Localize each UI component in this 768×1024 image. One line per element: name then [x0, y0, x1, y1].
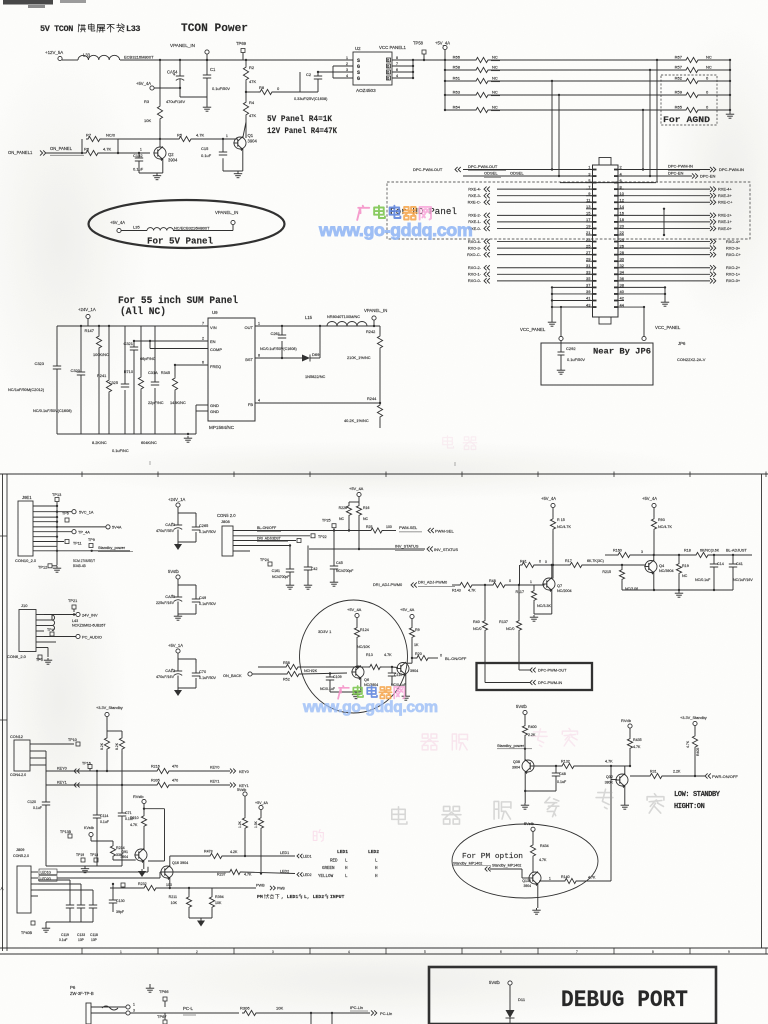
svg-text:R405: R405 [696, 748, 700, 756]
svg-text:28: 28 [620, 250, 625, 255]
resistor R18 [694, 552, 710, 557]
svg-text:NC/0.1uF/50V(C1608): NC/0.1uF/50V(C1608) [260, 347, 297, 351]
wire J9E1 row9 TP9 [33, 545, 57, 547]
svg-text:For 55 inch SUM Panel: For 55 inch SUM Panel [118, 295, 238, 306]
ground J10 [47, 658, 49, 660]
svg-text:LED2: LED2 [303, 873, 312, 877]
wire RXO-2+ [618, 267, 710, 269]
svg-text:41: 41 [586, 296, 591, 301]
svg-text:R160: R160 [613, 549, 622, 553]
svg-text:100: 100 [386, 525, 392, 529]
vertical from R132 row to PM [610, 766, 612, 881]
diode D69 [302, 355, 310, 362]
svg-text:8.2K: 8.2K [100, 742, 104, 750]
resistor R52 [285, 671, 301, 676]
resistor R147 [98, 325, 100, 327]
resistor R394 [211, 888, 213, 895]
transistor Q5 [397, 663, 409, 675]
resistor R232 [142, 885, 158, 890]
svg-text:J808: J808 [221, 519, 230, 524]
svg-text:Standby_MP1402: Standby_MP1402 [453, 862, 482, 866]
svg-text:1K: 1K [414, 643, 419, 647]
svg-text:5V TCON: 5V TCON [40, 24, 73, 34]
sheet left border [2, 474, 4, 951]
svg-text:15: 15 [586, 211, 591, 216]
Q6 emitter ground [360, 678, 362, 693]
JP6 pin 9/10 [586, 195, 593, 197]
svg-text:COMP: COMP [210, 347, 222, 352]
wire J9E1 row7 [33, 536, 57, 538]
box DPC-PWM [477, 663, 593, 690]
svg-text:5: 5 [424, 950, 426, 954]
svg-text:C31A: C31A [148, 370, 158, 375]
svg-text:TP9: TP9 [88, 538, 95, 542]
svg-text:33: 33 [586, 270, 591, 275]
svg-text:8: 8 [258, 354, 260, 358]
svg-text:0.1uF/NC: 0.1uF/NC [112, 448, 129, 453]
svg-text:1: 1 [530, 580, 532, 584]
wire ON_PANEL [46, 152, 84, 154]
svg-text:R8: R8 [259, 85, 265, 90]
resistor R25 [369, 528, 384, 533]
svg-text:210K_1%/NC: 210K_1%/NC [347, 355, 371, 360]
wire Q5 collector [411, 658, 413, 663]
box Near By JP6 [541, 343, 653, 385]
svg-text:NC/0.1uF: NC/0.1uF [695, 578, 711, 582]
svg-text:R306: R306 [240, 1006, 250, 1011]
svg-text:GND: GND [210, 403, 219, 408]
svg-text:4.2K: 4.2K [230, 850, 238, 854]
svg-text:ODSEL: ODSEL [510, 171, 524, 176]
svg-text:Q132: Q132 [522, 879, 531, 883]
svg-text:1.2K: 1.2K [238, 820, 242, 828]
JP6 pin 43/44 [586, 306, 593, 308]
svg-text:37: 37 [586, 283, 591, 288]
svg-text:4.7K: 4.7K [196, 133, 205, 138]
svg-text:R41: R41 [520, 560, 527, 564]
resistor R160 [616, 552, 632, 557]
connector JP6 body [593, 165, 619, 317]
svg-text:+5V_4A: +5V_4A [136, 81, 151, 86]
svg-text:7: 7 [576, 950, 578, 954]
svg-text:Q7: Q7 [557, 583, 562, 588]
resistor R132 [560, 763, 576, 768]
svg-text:5CM 2706/5E/7: 5CM 2706/5E/7 [73, 559, 95, 563]
ground C161 [289, 583, 291, 585]
svg-text:3904: 3904 [168, 158, 178, 163]
svg-text:2.2K: 2.2K [673, 770, 681, 774]
chevron KEY1 out [230, 783, 236, 788]
svg-text:+5V_4A: +5V_4A [349, 486, 364, 491]
svg-text:R4: R4 [249, 100, 255, 105]
svg-text:RXO-3-: RXO-3- [468, 245, 482, 250]
svg-text:NC: NC [706, 55, 712, 60]
svg-text:R63: R63 [453, 90, 461, 95]
svg-text:VPANEL_IN: VPANEL_IN [170, 43, 195, 48]
capacitor C110 [391, 667, 393, 672]
svg-text:TP66: TP66 [159, 989, 169, 994]
svg-text:RED: RED [330, 860, 338, 864]
wire row R63 to R59 [490, 94, 684, 96]
svg-text:INPUT: INPUT [330, 894, 345, 900]
bottom wire keypad [46, 865, 122, 867]
svg-text:TP58: TP58 [413, 41, 424, 46]
svg-text:RXE-0+: RXE-0+ [718, 226, 732, 231]
resistor R305 [155, 782, 171, 787]
svg-text:39: 39 [586, 289, 591, 294]
svg-text:C45: C45 [336, 561, 343, 565]
svg-text:47K: 47K [249, 79, 256, 84]
wire row R66 to R67 [490, 59, 684, 61]
JP6 pin 35/36 [586, 280, 593, 282]
svg-text:0.1uF: 0.1uF [100, 820, 109, 824]
svg-text:LED2: LED2 [280, 870, 289, 874]
JP6 pin 11/12 [586, 201, 593, 203]
wire DPC-PWM-OUT row [463, 169, 593, 171]
svg-text:3904: 3904 [523, 884, 531, 888]
resistor R434 [530, 843, 535, 858]
svg-text:LED1: LED1 [280, 851, 289, 855]
ground right block [678, 591, 680, 593]
svg-text:L43: L43 [72, 619, 78, 623]
svg-text:, LED1: , LED1 [281, 894, 298, 900]
wire 5VC_1A [33, 511, 72, 513]
svg-text:For 5V Panel: For 5V Panel [147, 237, 214, 247]
svg-text:143K/NC: 143K/NC [170, 400, 186, 405]
svg-text:R17: R17 [565, 559, 572, 563]
svg-text:R226: R226 [339, 506, 347, 510]
svg-text:RXE-C+: RXE-C+ [718, 200, 733, 205]
svg-text:EN: EN [210, 339, 216, 344]
svg-text:10K: 10K [215, 901, 222, 905]
svg-text:0.1uF: 0.1uF [557, 780, 567, 784]
svg-text:47K: 47K [249, 113, 256, 118]
wire collector row y555 [605, 554, 616, 556]
svg-text:KEY0: KEY0 [210, 766, 219, 770]
svg-text:NC/0: NC/0 [106, 133, 116, 138]
wire row R61 to R62 [490, 80, 684, 82]
svg-text:C109: C109 [333, 675, 342, 679]
svg-text:3: 3 [133, 1009, 135, 1013]
testpoint TP8 [33, 541, 64, 543]
svg-text:C130: C130 [116, 899, 125, 903]
svg-text:RXE-4-: RXE-4- [468, 186, 481, 191]
svg-text:D69: D69 [312, 352, 320, 357]
svg-text:4.7K: 4.7K [605, 760, 613, 764]
svg-text:KEY1: KEY1 [210, 780, 219, 784]
svg-text:NCH/2K: NCH/2K [304, 669, 318, 673]
svg-text:CA30: CA30 [165, 594, 176, 599]
capacitor C114 [96, 771, 98, 814]
svg-text:RXO-4+: RXO-4+ [726, 239, 741, 244]
svg-text:ON_PANEL1: ON_PANEL1 [8, 150, 33, 155]
svg-text:R210: R210 [130, 816, 139, 820]
capacitor C323 [57, 325, 88, 327]
wire RXE-3- [497, 195, 593, 197]
svg-text:BL-ADJUST: BL-ADJUST [726, 549, 747, 553]
svg-text:NCKZSM02-6UB26T: NCKZSM02-6UB26T [72, 624, 106, 628]
svg-text:35: 35 [586, 276, 591, 281]
resistor R117 [533, 585, 535, 589]
svg-text:0: 0 [509, 579, 511, 583]
svg-text:C325: C325 [109, 380, 118, 385]
svg-text:TP22: TP22 [318, 535, 327, 539]
svg-text:TP11: TP11 [73, 542, 82, 546]
JP6 pin 41/42 [586, 300, 593, 302]
resistor R17 [568, 562, 584, 567]
svg-text:R5: R5 [177, 133, 183, 138]
vertical OUT to BST [319, 326, 321, 358]
svg-text:30: 30 [620, 256, 625, 261]
svg-text:10P: 10P [91, 938, 98, 942]
svg-text:LED1: LED1 [337, 849, 348, 855]
svg-text:C110: C110 [394, 673, 402, 677]
svg-text:3904: 3904 [512, 766, 520, 770]
svg-text:L33: L33 [126, 24, 140, 34]
wire left row1 [258, 666, 284, 668]
svg-text:+12V_5A: +12V_5A [45, 50, 63, 55]
wire COMP pin [149, 341, 151, 349]
top sheet remnant ticks [149, 461, 151, 465]
svg-text:TP12: TP12 [38, 565, 47, 570]
svg-text:3D3V 1: 3D3V 1 [318, 629, 332, 634]
svg-text:R211: R211 [169, 895, 177, 899]
svg-text:6: 6 [202, 361, 204, 365]
JP6 pin 25/26 [586, 247, 593, 249]
capacitor C49 [195, 597, 197, 599]
wire R17 row [553, 564, 568, 566]
testpoint TP40B [31, 921, 35, 925]
wire RXE-1- [497, 221, 593, 223]
svg-text:3: 3 [641, 550, 643, 554]
svg-text:9: 9 [728, 950, 730, 954]
capacitor C109 [329, 672, 331, 674]
resistor R210 [143, 809, 145, 814]
svg-text:R3: R3 [144, 99, 150, 104]
svg-text:43: 43 [586, 302, 591, 307]
svg-text:0.1uF/50V: 0.1uF/50V [199, 676, 217, 680]
svg-text:RVdb: RVdb [621, 718, 632, 723]
resistor R435 [627, 737, 632, 750]
svg-text:Q6: Q6 [364, 678, 369, 682]
transistor Q38 [522, 760, 534, 772]
svg-text:0: 0 [440, 654, 442, 658]
svg-text:NR8040T100M/NC: NR8040T100M/NC [327, 314, 360, 319]
svg-text:L35: L35 [133, 225, 140, 230]
svg-text:NC/3904: NC/3904 [659, 569, 674, 573]
svg-text:2: 2 [196, 950, 198, 954]
svg-text:DPC-PWM-IN: DPC-PWM-IN [538, 680, 562, 685]
svg-text:1: 1 [133, 1003, 135, 1007]
svg-text:C118: C118 [90, 933, 98, 937]
JP6 bottom right bus [664, 287, 666, 300]
svg-text:4.7K: 4.7K [130, 823, 138, 827]
wire LED1 row [170, 855, 208, 857]
svg-text:4: 4 [258, 399, 260, 403]
capacitor CA30 [177, 585, 179, 597]
svg-text:R57: R57 [675, 65, 683, 70]
svg-text:NC/3.3K: NC/3.3K [537, 604, 551, 608]
wire PC_AUDIO [44, 636, 76, 638]
svg-text:+5V_4A: +5V_4A [642, 496, 657, 501]
JP6 pin 15/16 [586, 214, 593, 216]
wire standby split [107, 730, 122, 732]
svg-text:NC/0.1uF/50V(C1608): NC/0.1uF/50V(C1608) [33, 408, 72, 413]
resistor R216 [155, 768, 171, 773]
svg-text:21: 21 [586, 230, 591, 235]
resistor R66 [444, 59, 446, 61]
svg-text:0.1uF: 0.1uF [133, 167, 144, 172]
Q91 emitter ground [143, 861, 145, 870]
svg-text:44: 44 [620, 302, 625, 307]
svg-text:C71: C71 [125, 811, 132, 815]
svg-text:C42: C42 [311, 567, 317, 571]
testpoint TP10 [40, 743, 74, 745]
svg-text:R434: R434 [540, 844, 549, 848]
svg-text:J809: J809 [16, 847, 24, 852]
svg-text:R65: R65 [675, 105, 683, 110]
capacitor CA12 [177, 659, 179, 671]
svg-text:CA13: CA13 [165, 522, 175, 527]
svg-text:31: 31 [586, 263, 591, 268]
svg-text:19: 19 [586, 224, 591, 229]
ground 5Vstb [177, 614, 179, 616]
svg-text:0.1uF/50V: 0.1uF/50V [199, 602, 217, 606]
resistor R48 [491, 582, 507, 587]
svg-text:5Vstb: 5Vstb [489, 980, 500, 985]
faint watermark CJK row [392, 807, 407, 824]
capacitor C162 [307, 546, 309, 566]
svg-text:TP19: TP19 [76, 853, 84, 857]
vertical resistors RG24 RG23 [244, 796, 246, 816]
capacitor C1 [206, 59, 208, 61]
resistor R103 [104, 736, 109, 751]
wire RXO-3+ [618, 247, 710, 249]
transistor Q132 [529, 872, 541, 884]
svg-text:Standby_MP1402: Standby_MP1402 [492, 864, 521, 868]
svg-text:R93: R93 [658, 518, 665, 522]
svg-text:R232: R232 [138, 882, 147, 886]
svg-text:Near By JP6: Near By JP6 [593, 348, 651, 357]
Q5 emitter ground [405, 674, 407, 694]
P6 pins [91, 1006, 126, 1008]
wire FB [255, 402, 380, 404]
svg-text:R19: R19 [682, 564, 689, 568]
svg-text:R16: R16 [363, 506, 369, 510]
resistor R306 [242, 1010, 258, 1015]
testpoint TP5 ground [44, 647, 48, 649]
svg-text:PWB: PWB [256, 884, 265, 888]
capacitor C320 [80, 325, 82, 327]
svg-text:DPC-EN: DPC-EN [668, 170, 683, 175]
svg-text:Standby_power: Standby_power [98, 545, 126, 550]
wire RXE-0+ [618, 227, 710, 229]
svg-text:R62: R62 [675, 76, 683, 81]
svg-text:NC/0.1uF: NC/0.1uF [320, 687, 335, 691]
Q7 emitter [551, 590, 553, 615]
Q38 emitter [524, 772, 526, 804]
wire DRI_ADJ 3DST [233, 540, 296, 542]
wire RXO-0- [497, 280, 593, 282]
wire RXE-C+ [618, 201, 710, 203]
svg-text:RXE-4+: RXE-4+ [718, 186, 732, 191]
wire to Q5 base [392, 666, 398, 669]
svg-text:R147: R147 [84, 328, 94, 333]
J9E1 vertical bus [56, 506, 58, 565]
chevron PWR-ON/OFF [705, 773, 711, 778]
resistor R15 [550, 517, 555, 531]
svg-text:J9E1: J9E1 [22, 495, 32, 500]
svg-text:+5V_4A: +5V_4A [541, 496, 556, 501]
svg-text:TP10: TP10 [68, 738, 77, 742]
svg-text:TP_4A: TP_4A [78, 530, 90, 535]
svg-text:Q1: Q1 [248, 133, 254, 138]
svg-text:GREEN: GREEN [322, 867, 335, 871]
svg-text:6: 6 [500, 950, 502, 954]
chevron PC-Lin [371, 1010, 377, 1015]
bottom bus SUM panel [57, 433, 196, 435]
svg-text:KEY0: KEY0 [239, 770, 249, 774]
svg-text:100: 100 [166, 883, 172, 887]
svg-text:FREQ: FREQ [210, 364, 221, 369]
wire BST [255, 357, 302, 359]
U2 left pin wires [333, 65, 353, 67]
svg-text:C48: C48 [559, 772, 566, 776]
wire Q38 base row [533, 765, 561, 767]
box DEBUG PORT [429, 967, 716, 1024]
dashed box For HD Panel [387, 182, 750, 239]
svg-text:R52: R52 [283, 678, 290, 682]
svg-text:CON4-2.0: CON4-2.0 [10, 773, 26, 777]
svg-text:5Vstb: 5Vstb [516, 704, 527, 709]
svg-text:TP25: TP25 [322, 519, 331, 523]
svg-text:10K: 10K [144, 118, 151, 123]
wire RXE-0- [497, 227, 593, 229]
svg-text:C14: C14 [717, 562, 724, 566]
Q132 emitter ground [537, 884, 539, 909]
svg-text:VCC_PANEL: VCC_PANEL [655, 325, 681, 330]
svg-text:1.5K: 1.5K [254, 820, 258, 828]
svg-text:NC/1uF/16V: NC/1uF/16V [733, 578, 753, 582]
chevron Standby_MP1402 b [485, 867, 491, 872]
JP6 bottom left ground bus [551, 287, 553, 320]
svg-text:For PM option: For PM option [462, 853, 523, 861]
svg-text:2: 2 [202, 337, 204, 341]
svg-text:R66: R66 [453, 55, 461, 60]
capacitor C130 [112, 884, 114, 899]
vertical wire to ODSEL [558, 94, 560, 96]
svg-text:(All NC): (All NC) [120, 306, 166, 317]
svg-text:C292: C292 [566, 346, 576, 351]
svg-text:DRI_ADJ/3DST: DRI_ADJ/3DST [257, 537, 281, 541]
wire L35 to VPANEL [173, 230, 233, 232]
svg-text:DPC-PWM-IN: DPC-PWM-IN [668, 164, 693, 169]
svg-text:R216: R216 [151, 765, 160, 769]
svg-text:NC: NC [706, 65, 712, 70]
wire BL-ON/OFF [233, 530, 369, 532]
ground R211 [200, 919, 202, 921]
wire RXO-4- [497, 241, 593, 243]
wire pwm row [452, 584, 458, 586]
svg-text:Q4: Q4 [659, 563, 665, 568]
svg-text:TP4: TP4 [47, 628, 54, 632]
svg-text:6K.7K(3C): 6K.7K(3C) [587, 559, 604, 563]
svg-text:38: 38 [620, 283, 625, 288]
inductor L43 [44, 619, 52, 621]
svg-text:17: 17 [586, 217, 591, 222]
transistor Q7 [543, 578, 555, 590]
capacitor C132 [138, 152, 140, 154]
